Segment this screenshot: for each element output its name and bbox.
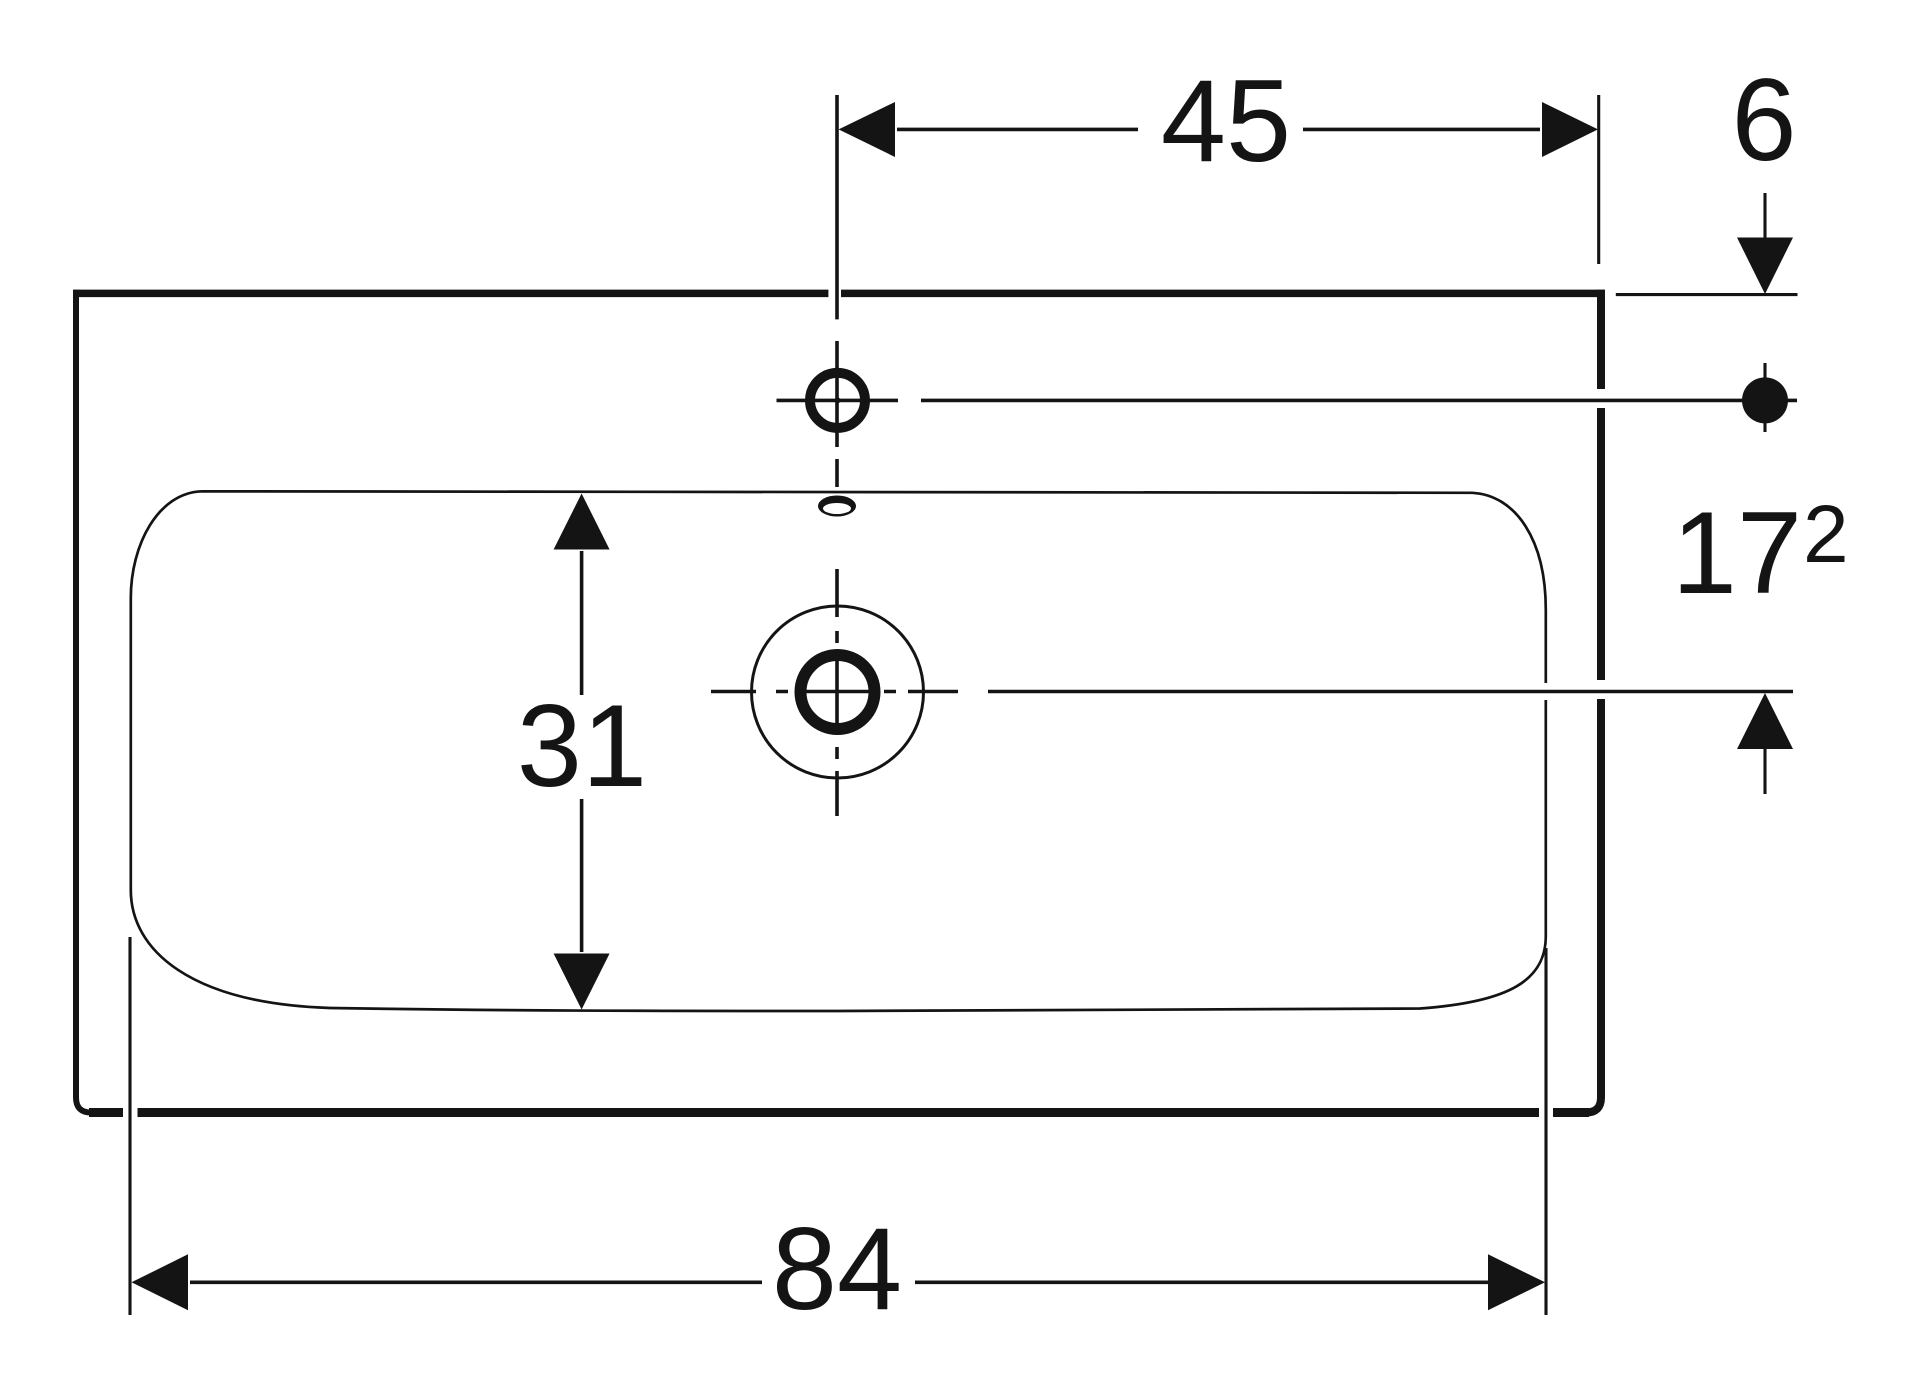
dot crosshair (1763, 363, 1766, 432)
dimension 6: down arrowhead (1737, 238, 1793, 295)
svg-text:84: 84 (772, 1203, 902, 1334)
white break in bowl right edge at drain centerline (1539, 683, 1552, 700)
outer basin rectangle top edge (broken at x=837 ext line) (73, 290, 1605, 298)
outer basin rectangle left edge with rounded bottom-left corner (76, 290, 91, 1113)
drain inner ring (801, 655, 875, 729)
dimension 6: arrow stem (1763, 193, 1766, 240)
dimension 84: right extension line (1544, 948, 1547, 1315)
dimension 45: right arrowhead (1542, 102, 1598, 157)
horizontal centerline of faucet hole y=400 (777, 399, 1798, 403)
dimension 45: right extension line (1597, 95, 1600, 264)
dimension 17: arrow stem (1763, 749, 1766, 794)
vertical centerline x=837 (faucet + drain axis) (835, 95, 839, 816)
horizontal centerline of drain y=691.5 (711, 690, 1793, 694)
svg-text:6: 6 (1731, 54, 1796, 185)
svg-text:45: 45 (1161, 55, 1291, 186)
dimension 31: up arrowhead (554, 494, 610, 550)
dimension 84: left extension line (128, 937, 131, 1315)
dimension 45: left arrowhead (839, 102, 895, 157)
dimension 84: left arrowhead (132, 1254, 189, 1310)
dimension 31: down arrowhead (554, 954, 610, 1010)
dimension 84: right arrowhead (1488, 1254, 1545, 1310)
faucet hole center dot (835, 397, 841, 403)
svg-text:31: 31 (517, 680, 647, 811)
svg-text:17: 17 (1672, 487, 1802, 618)
svg-text:2: 2 (1803, 489, 1849, 580)
dimension 84: dimension line (190, 1281, 1488, 1285)
drain outer circle (752, 606, 924, 778)
faucet hole circle (810, 373, 865, 428)
top edge extension line to the right (1616, 293, 1798, 296)
outer basin rectangle bottom edge (broken at 84-extension lines) (89, 1108, 1589, 1117)
overflow hole (818, 496, 856, 517)
outer basin rectangle right edge with rounded bottom-right corner (broken at centerlines) (1586, 290, 1601, 1113)
inner bowl outline (131, 491, 1546, 1011)
dimension 31: dimension line (580, 551, 584, 952)
reference dot on faucet centerline (1742, 377, 1788, 423)
dimension 17: up arrowhead pointing at drain centerline (1737, 693, 1793, 749)
dimension 45: dimension line (897, 128, 1540, 132)
